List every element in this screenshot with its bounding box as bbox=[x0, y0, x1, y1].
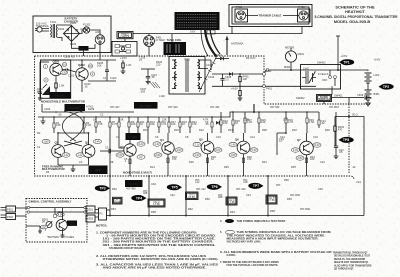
extra components left column bbox=[38, 62, 49, 100]
svg-text:METER: METER bbox=[285, 46, 294, 50]
svg-text:+9.6V: +9.6V bbox=[341, 54, 348, 58]
voltage callout at Q2 bbox=[94, 139, 102, 143]
capacitor C408 bbox=[220, 74, 231, 86]
note 6 measurements bbox=[220, 251, 332, 257]
svg-text:PL201: PL201 bbox=[83, 23, 91, 27]
channel drop wires bbox=[110, 170, 307, 216]
svg-text:5.4V: 5.4V bbox=[251, 148, 257, 152]
svg-text:R60: R60 bbox=[205, 197, 210, 201]
svg-text:17.5K: 17.5K bbox=[228, 200, 235, 204]
ground at battery bbox=[365, 100, 371, 106]
svg-text:TP6: TP6 bbox=[211, 185, 217, 189]
svg-text:SW402: SW402 bbox=[296, 96, 305, 100]
svg-text:THIS SYMBOL INDICATES A TEST P: THIS SYMBOL INDICATES A TEST POINT. bbox=[237, 220, 286, 223]
wire plug to transformer bbox=[42, 29, 49, 32]
gimbal small parts bbox=[38, 208, 65, 237]
transmitter case dashed border bbox=[35, 56, 371, 180]
svg-text:1.5K: 1.5K bbox=[59, 84, 65, 88]
battery feed into board bbox=[253, 104, 255, 112]
inverted label above Q3 bbox=[126, 133, 141, 140]
svg-text:C14: C14 bbox=[280, 135, 285, 139]
trainer plug left bbox=[235, 5, 248, 22]
misc upper labels bbox=[37, 55, 329, 101]
diode D402 on supply wire bbox=[229, 72, 232, 76]
notes heading bbox=[96, 224, 107, 228]
svg-text:RF OUT: RF OUT bbox=[246, 56, 256, 60]
right connector S301 bbox=[86, 206, 95, 222]
svg-text:GIMBAL CONTROL ASSEMBLY: GIMBAL CONTROL ASSEMBLY bbox=[29, 199, 72, 203]
svg-text:R53: R53 bbox=[111, 207, 116, 211]
svg-text:6.0V: 6.0V bbox=[215, 148, 221, 152]
svg-text:R24: R24 bbox=[228, 128, 233, 132]
resistor R401 bbox=[239, 73, 249, 87]
svg-text:R14: R14 bbox=[150, 165, 155, 169]
svg-text:C40: C40 bbox=[151, 182, 156, 186]
svg-text:3.3: 3.3 bbox=[225, 77, 229, 81]
channel 4 trim box bbox=[226, 197, 237, 205]
crossing curve wires to multivibrator bbox=[62, 111, 83, 141]
svg-text:468: 468 bbox=[143, 191, 148, 195]
Q4 parts bbox=[153, 133, 183, 165]
svg-text:C409: C409 bbox=[357, 93, 364, 97]
battery charger enclosure box bbox=[33, 16, 111, 53]
svg-text:R66: R66 bbox=[284, 178, 289, 182]
svg-text:Q7: Q7 bbox=[297, 138, 301, 142]
svg-text:TP: TP bbox=[228, 220, 231, 223]
svg-text:.02: .02 bbox=[58, 113, 62, 117]
svg-text:9.6VDC.: 9.6VDC. bbox=[227, 254, 237, 257]
Q5 parts bbox=[193, 133, 222, 165]
coupling cap Q2-Q3 bbox=[100, 146, 124, 154]
svg-text:1.5K: 1.5K bbox=[309, 120, 315, 124]
slide switch SW401 bbox=[317, 86, 333, 104]
svg-text:TERMINAL: TERMINAL bbox=[36, 24, 50, 28]
TP2 test point bbox=[379, 84, 394, 90]
svg-text:5.: 5. bbox=[220, 231, 222, 234]
svg-text:+68: +68 bbox=[243, 180, 248, 184]
svg-text:VOLTAGES MAY VARY ±20%.: VOLTAGES MAY VARY ±20%. bbox=[227, 241, 262, 244]
svg-text:P302: P302 bbox=[7, 215, 14, 219]
svg-text:457-R66: 457-R66 bbox=[300, 207, 311, 211]
svg-text:1.2K: 1.2K bbox=[126, 63, 132, 67]
svg-text:15K: 15K bbox=[223, 121, 228, 125]
9.6V feed drop bbox=[336, 36, 348, 70]
svg-text:17.5K: 17.5K bbox=[188, 195, 195, 199]
cable bundle to board bbox=[199, 29, 220, 92]
svg-text:0.8V: 0.8V bbox=[155, 153, 161, 157]
svg-text:2.2K: 2.2K bbox=[86, 123, 92, 127]
gimbal transistor Q301 bbox=[56, 219, 77, 230]
svg-text:17.5K: 17.5K bbox=[268, 198, 275, 202]
svg-text:C104: C104 bbox=[208, 75, 215, 79]
svg-text:8 CELLS: 8 CELLS bbox=[318, 72, 329, 76]
cross-coupling wires Q1/Q2 bbox=[57, 132, 89, 146]
svg-text:D401: D401 bbox=[216, 53, 223, 57]
svg-text:1K: 1K bbox=[140, 122, 143, 126]
svg-text:457-427: 457-427 bbox=[110, 105, 120, 109]
svg-text:J401: J401 bbox=[266, 69, 272, 73]
svg-text:0V: 0V bbox=[139, 155, 142, 159]
svg-text:27 MHZ: 27 MHZ bbox=[156, 38, 166, 42]
svg-text:3.4V: 3.4V bbox=[293, 148, 299, 152]
right return wire bbox=[335, 113, 364, 216]
svg-text:C6: C6 bbox=[155, 135, 159, 139]
svg-text:SW401: SW401 bbox=[334, 94, 343, 98]
svg-text:C16: C16 bbox=[313, 135, 318, 139]
Q6 parts bbox=[229, 133, 258, 165]
svg-text:47K: 47K bbox=[98, 122, 103, 126]
svg-text:1 mSEC: 1 mSEC bbox=[128, 135, 138, 139]
svg-text:4.7K: 4.7K bbox=[203, 118, 209, 122]
TP6 test point bbox=[207, 184, 222, 190]
gimbal top rail bbox=[27, 206, 86, 213]
svg-text:15K: 15K bbox=[56, 123, 61, 127]
svg-text:457-429: 457-429 bbox=[168, 105, 178, 109]
tank coil L101 (black) bbox=[164, 34, 187, 55]
svg-text:2.1V: 2.1V bbox=[194, 142, 200, 146]
svg-text:MONOSTABLE MULTIVIBRATOR: MONOSTABLE MULTIVIBRATOR bbox=[41, 99, 85, 103]
oscillator caps left of coil box bbox=[141, 69, 158, 84]
svg-text:10K: 10K bbox=[131, 122, 136, 126]
svg-text:ALSO APPLY FOR TRANSISTORS: ALSO APPLY FOR TRANSISTORS bbox=[334, 264, 372, 267]
svg-text:22K: 22K bbox=[150, 122, 155, 126]
svg-text:** TRANSISTOR Q1 THROUGH Q7: ** TRANSISTOR Q1 THROUGH Q7 bbox=[330, 252, 368, 255]
svg-text:DETAILS IS REASONABLE TEST: DETAILS IS REASONABLE TEST bbox=[334, 255, 371, 258]
svg-text:Q4: Q4 bbox=[160, 138, 164, 142]
svg-text:750 µSEC: 750 µSEC bbox=[54, 94, 66, 98]
svg-text:4.6V: 4.6V bbox=[176, 148, 182, 152]
freq check oscillator sub-box bbox=[112, 42, 137, 57]
svg-text:457-431: 457-431 bbox=[210, 105, 220, 109]
svg-text:470: 470 bbox=[247, 157, 252, 161]
bridge rectifier D201-D204 bbox=[58, 21, 87, 46]
svg-text:.05: .05 bbox=[205, 122, 209, 126]
svg-text:P402: P402 bbox=[236, 5, 243, 9]
svg-text:R62: R62 bbox=[188, 207, 193, 211]
svg-text:CHG: CHG bbox=[303, 67, 309, 71]
note 4 test points bbox=[220, 220, 286, 223]
svg-text:TP3: TP3 bbox=[99, 187, 105, 191]
voltage glyph in note 5 bbox=[226, 230, 235, 234]
trainer cable box bbox=[229, 5, 312, 27]
svg-text:C24: C24 bbox=[356, 180, 361, 184]
channel 1 trim box bbox=[113, 197, 123, 204]
charge jack J201 bbox=[95, 30, 105, 44]
svg-text:4.7: 4.7 bbox=[279, 139, 283, 143]
TP5 test point bbox=[167, 184, 182, 190]
svg-text:9.2V: 9.2V bbox=[314, 143, 320, 147]
wires transformer to rectifier bbox=[57, 25, 71, 41]
freq check switch box SW102 bbox=[117, 32, 133, 39]
svg-text:C1: C1 bbox=[103, 76, 107, 80]
svg-text:RESULTS. THE WAVEFORM: RESULTS. THE WAVEFORM bbox=[334, 258, 365, 261]
svg-text:C203 .02: C203 .02 bbox=[64, 55, 75, 59]
note 2 resistors bbox=[96, 255, 219, 261]
bottom common rail bbox=[108, 215, 364, 217]
TP7 test point bbox=[248, 183, 263, 189]
svg-text:TRAINER CABLE: TRAINER CABLE bbox=[259, 14, 282, 18]
svg-text:S302: S302 bbox=[87, 217, 94, 221]
note 3 capacitors bbox=[96, 264, 219, 270]
top feed rail bbox=[41, 59, 117, 68]
TP3 test point bbox=[95, 185, 110, 191]
transistor Q6 bbox=[235, 138, 250, 154]
svg-text:C12: C12 bbox=[250, 135, 255, 139]
svg-text:OTHERWISE NOTED. RESISTOR VAL: OTHERWISE NOTED. RESISTOR VALUES ARE IN … bbox=[103, 258, 219, 261]
svg-text:R209: R209 bbox=[88, 107, 95, 111]
svg-text:10K: 10K bbox=[261, 120, 266, 124]
second blob (pulse shaper) bbox=[65, 104, 94, 111]
cable exit stub box bbox=[207, 30, 215, 34]
trainer plug right bbox=[298, 5, 311, 22]
svg-text:1K: 1K bbox=[211, 157, 214, 161]
note 1 component number groups bbox=[96, 231, 216, 250]
svg-text:FOR THE PHYSICAL LOCATION OF P: FOR THE PHYSICAL LOCATION OF PARTS. bbox=[227, 264, 279, 267]
svg-text:TP2: TP2 bbox=[383, 85, 389, 89]
svg-text:Q6: Q6 bbox=[235, 138, 239, 142]
svg-text:B401: B401 bbox=[374, 92, 381, 96]
svg-text:R4: R4 bbox=[46, 170, 50, 174]
svg-text:C2: C2 bbox=[79, 160, 83, 164]
svg-text:NOTES:: NOTES: bbox=[96, 224, 107, 228]
svg-text:457-BAT: 457-BAT bbox=[329, 105, 339, 109]
svg-text:0.6V: 0.6V bbox=[117, 153, 123, 157]
svg-text:M401: M401 bbox=[298, 52, 305, 56]
svg-text:B+3.6V: B+3.6V bbox=[129, 182, 138, 186]
svg-text:9.4V: 9.4V bbox=[95, 139, 101, 143]
svg-text:1.4V: 1.4V bbox=[154, 142, 160, 146]
note 5 voltages bbox=[220, 231, 331, 244]
svg-text:457-440: 457-440 bbox=[236, 187, 246, 191]
free running multivibrator label bbox=[42, 165, 65, 172]
svg-text:1.2V: 1.2V bbox=[77, 153, 83, 157]
svg-text:C8: C8 bbox=[185, 135, 189, 139]
svg-text:SHEETS FOR TRANSISTOR Q1: SHEETS FOR TRANSISTOR Q1 bbox=[334, 261, 369, 264]
svg-text:P301: P301 bbox=[7, 207, 14, 211]
svg-text:R2: R2 bbox=[37, 131, 41, 135]
svg-text:100: 100 bbox=[243, 77, 248, 81]
svg-text:S301: S301 bbox=[87, 208, 94, 212]
svg-text:STANDARD CIRCUIT BOARD.: STANDARD CIRCUIT BOARD. bbox=[109, 247, 145, 250]
antenna bbox=[225, 36, 243, 56]
mating connector right bbox=[95, 208, 107, 220]
svg-text:P401: P401 bbox=[266, 87, 273, 91]
diode D1 bbox=[216, 121, 219, 125]
svg-text:C46: C46 bbox=[318, 187, 323, 191]
pin number callouts Q201 bbox=[43, 62, 66, 82]
svg-text:R10: R10 bbox=[143, 128, 148, 132]
svg-text:5K: 5K bbox=[42, 220, 45, 224]
svg-text:C2: C2 bbox=[100, 113, 104, 117]
transformer T201 bbox=[50, 20, 57, 38]
pilot lamp PL201 bbox=[83, 23, 91, 34]
svg-text:1.2V: 1.2V bbox=[63, 153, 69, 157]
emitter drops to bottom row bbox=[110, 133, 307, 176]
svg-text:+9.6V: +9.6V bbox=[374, 58, 381, 62]
channel 2 trim box bbox=[148, 199, 165, 207]
transistor footnote bbox=[330, 252, 372, 271]
svg-text:P1: P1 bbox=[100, 212, 104, 216]
13-wire cable connector chart (black) bbox=[175, 12, 220, 30]
svg-text:R28: R28 bbox=[262, 128, 267, 132]
TP glyph in note 4 bbox=[225, 219, 234, 223]
transistor Q1 bbox=[52, 141, 65, 158]
RF transformer T101 bbox=[169, 57, 205, 95]
svg-text:C1: C1 bbox=[37, 145, 41, 149]
svg-text:1K: 1K bbox=[182, 122, 185, 126]
Q3 bias parts bbox=[116, 133, 145, 165]
svg-text:SW402: SW402 bbox=[317, 61, 326, 65]
svg-text:.02: .02 bbox=[321, 121, 325, 125]
svg-text:TP7: TP7 bbox=[253, 184, 259, 188]
svg-text:468: 468 bbox=[218, 195, 223, 199]
cap C21 near Q7 bbox=[334, 112, 345, 159]
svg-text:C301: C301 bbox=[57, 210, 64, 214]
svg-text:10K: 10K bbox=[119, 118, 124, 122]
crystal to border lead bbox=[125, 39, 149, 57]
resistor R402 with ground bbox=[231, 86, 242, 100]
svg-text:+12: +12 bbox=[195, 180, 200, 184]
svg-text:1.8V: 1.8V bbox=[230, 153, 236, 157]
svg-text:*BATTERY SWITCHES: *BATTERY SWITCHES bbox=[47, 235, 74, 239]
svg-text:2.8V: 2.8V bbox=[297, 156, 303, 160]
charging indicator blob S201 bbox=[79, 46, 89, 51]
coupling parts between Q201/Q202 bbox=[55, 68, 91, 92]
svg-text:B+ 9.6V: B+ 9.6V bbox=[140, 104, 151, 108]
monostable multivibrator blob bbox=[41, 92, 85, 103]
AC plug P201 bbox=[35, 22, 50, 32]
svg-text:OFF: OFF bbox=[322, 78, 328, 82]
gimbal voltage callouts bbox=[41, 212, 65, 229]
battery B401 lower cells bbox=[365, 83, 381, 100]
svg-text:470: 470 bbox=[95, 168, 101, 172]
svg-text:4.7K: 4.7K bbox=[161, 122, 167, 126]
B+ rail bbox=[38, 111, 319, 117]
resistor value labels on rail bbox=[56, 118, 326, 127]
right column R/gnd bbox=[120, 56, 132, 74]
battery B401 upper cells bbox=[362, 58, 381, 84]
svg-text:J201: J201 bbox=[95, 30, 101, 34]
svg-text:17.5K: 17.5K bbox=[114, 200, 121, 204]
svg-text:+9.6V: +9.6V bbox=[231, 87, 238, 91]
svg-text:470: 470 bbox=[172, 157, 177, 161]
inverted label below border bbox=[125, 180, 143, 191]
feedthrough terminals on case bbox=[263, 69, 269, 88]
svg-text:+3.6V: +3.6V bbox=[120, 56, 127, 60]
svg-text:Q5: Q5 bbox=[199, 138, 203, 142]
svg-text:ANTENNA: ANTENNA bbox=[231, 42, 244, 46]
svg-text:457-456: 457-456 bbox=[126, 187, 136, 191]
svg-text:R20: R20 bbox=[189, 160, 194, 164]
channel 3 trim box bbox=[186, 192, 199, 200]
svg-text:.05: .05 bbox=[339, 150, 343, 154]
svg-text:MONOSTABLE MULTI: MONOSTABLE MULTI bbox=[123, 171, 152, 175]
svg-text:TP5: TP5 bbox=[171, 186, 177, 190]
charging switch box SW402 bbox=[301, 61, 341, 90]
B+ wire to tank bbox=[133, 27, 302, 34]
svg-text:TP8: TP8 bbox=[343, 138, 349, 142]
TP8 test point bbox=[339, 137, 354, 143]
svg-text:C3: C3 bbox=[105, 146, 109, 150]
svg-text:3.2V: 3.2V bbox=[138, 142, 144, 146]
svg-text:D203: D203 bbox=[70, 42, 77, 46]
svg-text:R64: R64 bbox=[230, 210, 235, 214]
charge jack interconnect marks bbox=[202, 60, 213, 70]
svg-text:R25: R25 bbox=[224, 165, 229, 169]
crystal X401 socket bbox=[144, 34, 166, 50]
wire bridge to lamp and jack bbox=[80, 30, 101, 35]
svg-text:3.3µF: 3.3µF bbox=[110, 76, 117, 80]
svg-text:L102: L102 bbox=[159, 94, 165, 98]
svg-text:SHAPER: SHAPER bbox=[69, 106, 80, 110]
emitter resistors bbox=[129, 158, 308, 164]
svg-text:10K: 10K bbox=[283, 118, 288, 122]
svg-text:R65: R65 bbox=[287, 197, 292, 201]
svg-text:SWITCH: SWITCH bbox=[318, 97, 329, 101]
svg-text:47K: 47K bbox=[192, 122, 197, 126]
transistor Q7 bbox=[297, 138, 313, 155]
svg-text:2.2K: 2.2K bbox=[244, 118, 250, 122]
left ground post bbox=[41, 117, 46, 124]
svg-text:1K: 1K bbox=[85, 84, 88, 88]
transistor Q5 bbox=[199, 138, 214, 154]
note 7 x-ray views bbox=[220, 261, 279, 267]
svg-text:CHG: CHG bbox=[80, 48, 85, 50]
svg-text:17.5K: 17.5K bbox=[153, 202, 160, 206]
svg-text:R58: R58 bbox=[151, 210, 156, 214]
svg-text:470: 470 bbox=[338, 127, 343, 131]
channel 5 trim box bbox=[266, 195, 277, 204]
gimbal assembly dashed box bbox=[26, 199, 87, 243]
svg-text:TANK COIL: TANK COIL bbox=[166, 38, 181, 42]
svg-text:1.5V: 1.5V bbox=[61, 70, 67, 74]
svg-text:C201: C201 bbox=[68, 74, 75, 78]
transistor Q201 bbox=[50, 60, 62, 76]
svg-text:.05: .05 bbox=[151, 75, 155, 79]
voltage callout at Q1 bbox=[42, 139, 50, 143]
wire gimbal to bottom rail bbox=[107, 210, 111, 216]
svg-text:C42: C42 bbox=[170, 193, 175, 197]
svg-text:10K: 10K bbox=[97, 64, 102, 68]
charger bottom wire bbox=[72, 42, 96, 49]
svg-text:T201: T201 bbox=[50, 20, 56, 24]
transistor Q2 bbox=[82, 141, 95, 158]
svg-text:457-: 457- bbox=[276, 183, 281, 187]
svg-text:2.4V: 2.4V bbox=[230, 142, 236, 146]
rail junction dots bbox=[53, 111, 308, 177]
svg-text:4.7K: 4.7K bbox=[288, 120, 294, 124]
svg-text:TP1: TP1 bbox=[343, 61, 349, 65]
timing blob (black) bbox=[89, 166, 108, 175]
hatched shield marks bbox=[150, 82, 160, 88]
svg-text:R22: R22 bbox=[199, 128, 204, 132]
right column C1 bbox=[88, 60, 117, 81]
feed rail to B+ blob bbox=[42, 104, 134, 113]
schematic title text bbox=[315, 5, 398, 24]
emitter parts Q1/Q2 bbox=[58, 153, 89, 172]
svg-text:CHECK: CHECK bbox=[120, 34, 129, 38]
svg-text:10K: 10K bbox=[171, 122, 176, 126]
small wire labels bottom row bbox=[111, 178, 301, 214]
svg-text:220: 220 bbox=[156, 63, 161, 67]
svg-text:R36: R36 bbox=[325, 128, 330, 132]
svg-text:Q301: Q301 bbox=[69, 223, 76, 226]
TP1 test point bbox=[339, 59, 354, 65]
extra scatter labels bbox=[37, 105, 361, 211]
svg-text:C22: C22 bbox=[320, 160, 325, 164]
svg-text:22K: 22K bbox=[162, 118, 167, 122]
svg-text:1.8V: 1.8V bbox=[43, 139, 49, 143]
